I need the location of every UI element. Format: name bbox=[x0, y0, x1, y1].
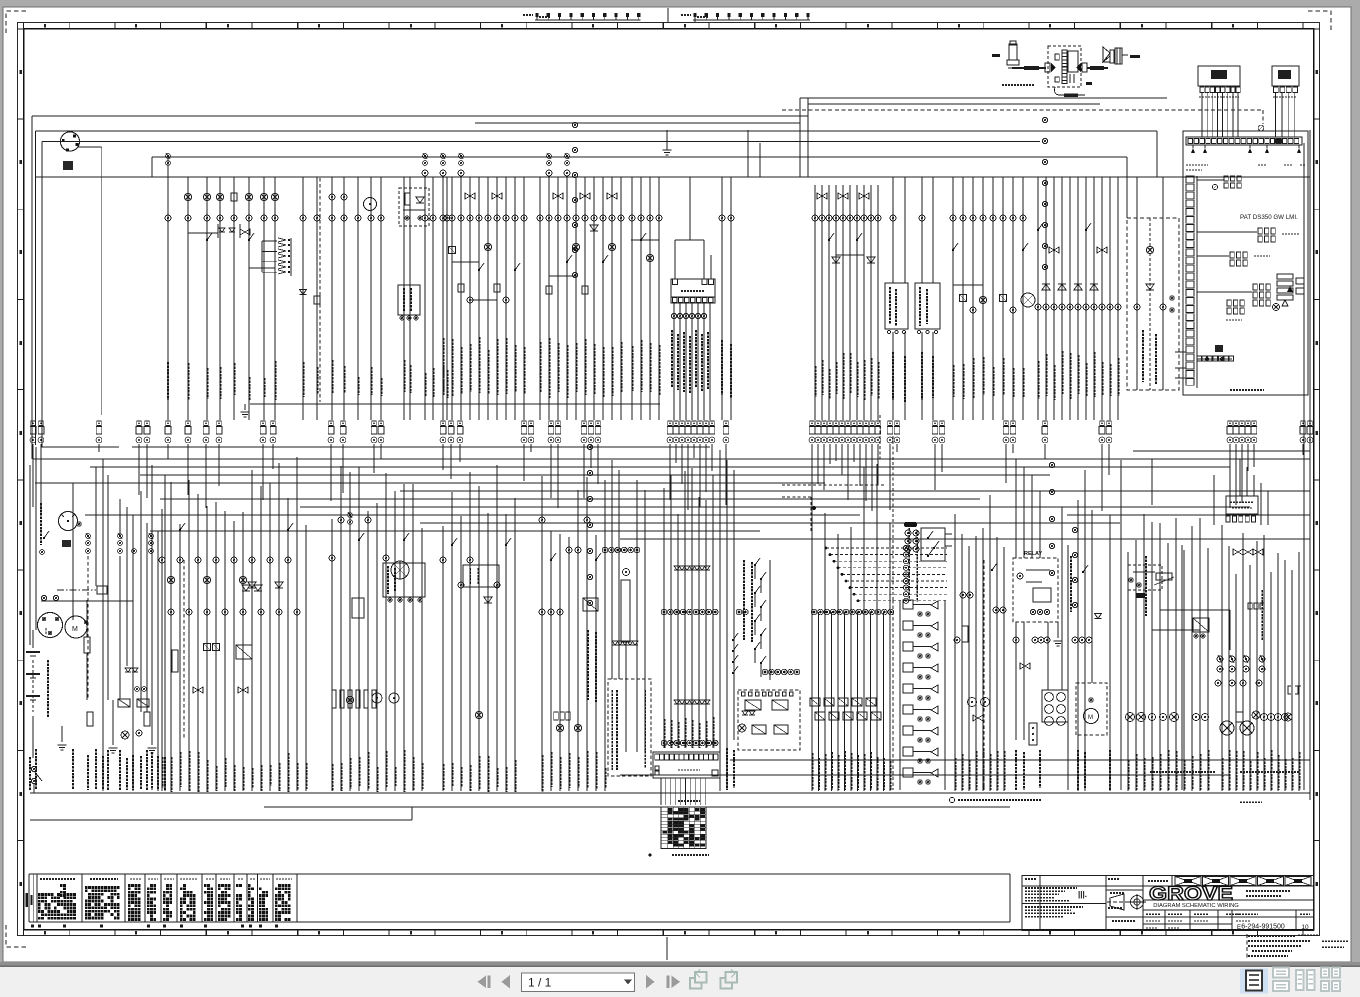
L13 vert label bbox=[1070, 556, 1072, 612]
relay K5 box bbox=[885, 283, 908, 329]
terminal strip T0 (x33) bbox=[31, 421, 35, 425]
dashed corner mark top-right bbox=[1308, 11, 1331, 33]
upper bundle U7 bbox=[631, 177, 633, 420]
legend table right box bbox=[297, 873, 1010, 875]
speaker symbol bbox=[1103, 56, 1110, 62]
triangle row TA (y568) bbox=[674, 566, 680, 570]
lamp above relay pair bbox=[738, 724, 746, 732]
heavy vertical x1068 bbox=[1067, 545, 1069, 790]
transition bus F (y491) bbox=[400, 490, 1310, 492]
L11 symbols bbox=[960, 592, 966, 598]
horn wire right hatched bbox=[1087, 67, 1108, 69]
lower bus y807 bbox=[264, 806, 1010, 808]
U3 dashed vertical x320 bbox=[319, 178, 321, 402]
ground below RELAY bbox=[1054, 640, 1063, 642]
horn H1 cylinder bbox=[1009, 44, 1017, 60]
bus selector wires down bbox=[673, 303, 675, 420]
lamp row right bbox=[1252, 711, 1260, 719]
lamp grid 3x2 bbox=[1045, 693, 1054, 702]
big circle CB1 bbox=[364, 198, 377, 211]
fuse pair row bbox=[1217, 656, 1223, 662]
ground G-3 bbox=[148, 747, 157, 749]
pilot block PL1 bbox=[398, 285, 420, 315]
transition bus L (y539) bbox=[620, 538, 1310, 540]
battery dashed link bbox=[32, 660, 34, 712]
dashed option bus (y110) bbox=[782, 109, 1263, 111]
junction pair y598 bbox=[41, 595, 46, 600]
svg-text:1 / 1: 1 / 1 bbox=[528, 976, 552, 990]
terminal strip T10 (x343) bbox=[341, 421, 345, 425]
L9 upper stubs bbox=[811, 456, 813, 612]
fan-out dashed wires bbox=[826, 547, 947, 549]
legend under-table dots bbox=[31, 925, 34, 928]
right end dash bbox=[1130, 55, 1140, 58]
U3 diode bbox=[300, 290, 307, 295]
lower bus y820 bbox=[30, 819, 412, 821]
bus left drop x152 bbox=[151, 157, 153, 177]
L15 wires bbox=[1221, 525, 1223, 791]
PAT grid D bbox=[1253, 284, 1257, 290]
terminal strip T12 (x381) bbox=[379, 421, 383, 425]
terminal strip T14 (x460) bbox=[458, 421, 462, 425]
flasher cluster bbox=[1128, 565, 1162, 590]
svg-text:6-294-991500: 6-294-991500 bbox=[1241, 924, 1285, 931]
legend table grid bbox=[29, 873, 1010, 875]
L7 labels bbox=[663, 719, 665, 748]
lower bundle L2 (dense left) bbox=[161, 509, 163, 791]
relay sq row y702 bbox=[118, 699, 130, 707]
junction dot row E (y743) bbox=[661, 740, 667, 746]
resistor ladder R-L6 bbox=[623, 569, 630, 576]
transition bus I (y515) bbox=[85, 514, 860, 516]
title small text rows A bbox=[1025, 878, 1037, 880]
dashed bus into PAT bbox=[1262, 110, 1264, 124]
PAT grid B bbox=[1258, 228, 1262, 234]
transfer box TR1 bbox=[383, 563, 425, 597]
legend table text blobs bbox=[38, 893, 41, 896]
two-page icon bbox=[1296, 970, 1304, 990]
bus +15 (y130) bbox=[36, 130, 1158, 132]
switch cascade S-L7b bbox=[733, 633, 738, 640]
relay bank labels bbox=[908, 528, 910, 600]
PAT left stubs bbox=[1175, 351, 1186, 353]
frame zone labels bbox=[20, 70, 23, 74]
terminal strip T28 (x1303) bbox=[1301, 421, 1305, 425]
lower right label rows bbox=[1150, 771, 1215, 773]
headlight dashed box bbox=[1076, 683, 1107, 735]
top wires drop right of center bbox=[799, 98, 801, 177]
L14 labels bbox=[1127, 760, 1129, 790]
disconnect switch S2 bbox=[31, 766, 36, 771]
horn connector pair left bbox=[1045, 63, 1050, 72]
transition steps right bbox=[1133, 450, 1310, 452]
fuse row F-row bbox=[332, 690, 336, 708]
L13 dot row y640 bbox=[1072, 637, 1078, 643]
relay ladder upper block bbox=[904, 522, 917, 527]
gauge M1 label plate bbox=[63, 161, 73, 170]
below-frame note lines bbox=[1248, 935, 1296, 937]
PAT slash circle bbox=[1212, 184, 1217, 189]
junction dot row C (y612) bbox=[811, 609, 817, 615]
upper bundle U6 bbox=[539, 177, 541, 420]
lower bundle L11 wires bbox=[954, 514, 956, 791]
big lamps right bbox=[1220, 721, 1234, 735]
junction dot column x590 bbox=[587, 444, 592, 449]
matrix label bbox=[678, 800, 700, 802]
triangle row TB (y702) bbox=[674, 700, 680, 704]
bus right drop x1304 bbox=[1303, 143, 1305, 790]
transition bus E (y483) bbox=[35, 482, 825, 484]
nav prev-page button bbox=[502, 975, 511, 989]
wire M1 exit right bbox=[78, 146, 102, 148]
gauge M3 (volt) bbox=[59, 512, 78, 531]
transition bus B (y459) bbox=[33, 458, 1310, 460]
terminal strip T2 (x139) bbox=[137, 421, 141, 425]
bus y116 left span bbox=[32, 115, 808, 117]
upper bundle U4 bbox=[357, 177, 359, 420]
junction dot row A (y612) bbox=[661, 609, 667, 615]
dashed enclosure DL6 bbox=[608, 679, 651, 776]
L13 wires bbox=[1077, 500, 1079, 791]
circle gauge U11 bbox=[1021, 293, 1035, 307]
gauge M3 plate bbox=[62, 540, 71, 547]
bumper connector matrix bbox=[661, 807, 706, 849]
PAT grid F bbox=[1227, 300, 1231, 306]
legend margin marks bbox=[26, 893, 29, 907]
L11 labels bbox=[954, 758, 956, 790]
svg-text:PAT DS350 GW LMI.: PAT DS350 GW LMI. bbox=[1240, 214, 1298, 221]
wires below K5/K6 bbox=[892, 332, 894, 420]
nav last-page button bbox=[667, 976, 670, 989]
lower bundle L5 bbox=[541, 476, 543, 791]
terminal strip T20 (x726) bbox=[724, 421, 728, 425]
PAT terminal ladder bbox=[1186, 176, 1194, 183]
relay pair dashed box bbox=[738, 690, 800, 750]
GM selector wires down bbox=[660, 778, 662, 805]
terminal strip T26 (x1102) bbox=[1100, 421, 1104, 425]
terminal strip T5 (x206) bbox=[204, 421, 208, 425]
gauge M1 (cluster) bbox=[60, 132, 79, 151]
horn wire left hatched bbox=[1012, 67, 1046, 69]
terminal strip T7 (x263) bbox=[261, 421, 265, 425]
dashed vertical x88 bbox=[87, 556, 89, 700]
ground G-U2 bbox=[241, 411, 250, 413]
L11 dashed vertical bbox=[983, 560, 985, 790]
lower bus y760 bbox=[730, 759, 1310, 761]
transition bus A (y447) bbox=[41, 446, 119, 448]
bus selector box bbox=[671, 279, 715, 297]
relay K1 dashed box bbox=[399, 188, 429, 226]
starter M2 bbox=[65, 616, 87, 638]
dot row y640 right bbox=[1013, 637, 1019, 643]
terminal strip T9 (x331) bbox=[329, 421, 333, 425]
terminal strip T19 (x670) bbox=[668, 421, 672, 425]
upper bundle U5 bbox=[442, 177, 444, 420]
relay near flasher bbox=[1193, 618, 1209, 632]
terminal strip T3 (x168) bbox=[166, 421, 170, 425]
L15 small cluster bbox=[1248, 603, 1252, 609]
bus selector wires up bbox=[674, 240, 676, 279]
lower bundle L3 bbox=[331, 519, 333, 791]
fuse box row A (y702) bbox=[810, 698, 820, 706]
terminal stubs down bbox=[32, 444, 34, 507]
dashed corner mark bottom-left bbox=[6, 925, 29, 947]
gauge M3 label bbox=[40, 503, 42, 545]
terminal strip T8 (x273) bbox=[271, 421, 275, 425]
bus corner x42 bbox=[41, 142, 43, 448]
connector CN2 block bbox=[1272, 66, 1299, 86]
L13 switch bbox=[1083, 565, 1088, 572]
option dashed box U13 bbox=[1127, 218, 1179, 390]
terminal strip T13 (x443) bbox=[441, 421, 445, 425]
toolbar background bbox=[0, 967, 1360, 997]
svg-text:M: M bbox=[1088, 715, 1093, 721]
center fold mark bottom bbox=[666, 937, 668, 960]
small connector 3pin bbox=[1029, 723, 1037, 745]
PAT grid C bbox=[1230, 252, 1234, 258]
U2 diode cluster bbox=[219, 228, 225, 232]
wire stub from pin row P2 bbox=[694, 20, 696, 22]
contactor pair bbox=[1020, 663, 1025, 669]
terminal strip T16 (x551) bbox=[549, 421, 553, 425]
terminal strip T25 (x1045) bbox=[1043, 421, 1047, 425]
junction dot column x1045 bbox=[1042, 117, 1047, 122]
terminal strip T22 (x890) bbox=[888, 421, 892, 425]
dot row y683 right bbox=[1215, 680, 1221, 686]
terminal strip T11 (x374) bbox=[372, 421, 376, 425]
relay pair cells bbox=[745, 700, 761, 710]
RELAY box internals bbox=[1017, 573, 1023, 579]
note text below baseline bbox=[949, 797, 954, 802]
bus selector pin squares bbox=[671, 297, 715, 303]
upper bundle U12 bbox=[1037, 177, 1039, 420]
ground sym above bus selector bbox=[663, 149, 672, 151]
svg-text:GROVE: GROVE bbox=[1149, 884, 1233, 905]
L5 relay hatched bbox=[583, 598, 598, 611]
small box L3b bbox=[352, 598, 364, 618]
VLF connector box bbox=[1226, 496, 1258, 514]
PAT grid top bbox=[1224, 176, 1228, 181]
battery BT1 bbox=[26, 651, 40, 653]
dashed vertical x893 bbox=[892, 600, 894, 790]
toolbar separator bbox=[0, 962, 1360, 967]
frame top ruler ticks bbox=[23, 22, 25, 29]
svg-text:|||.: |||. bbox=[1078, 890, 1087, 899]
title grid texts bbox=[1146, 913, 1160, 915]
lamp left bbox=[121, 731, 129, 739]
dash-dot link y590 bbox=[57, 589, 96, 591]
bus 58 (y157) bbox=[152, 156, 1127, 158]
terminal strip T15 (x524) bbox=[522, 421, 526, 425]
prev-view icon bbox=[690, 978, 702, 989]
junction dot column x1075 bbox=[1072, 527, 1077, 532]
L4 box bbox=[463, 565, 499, 587]
GM selector box bbox=[653, 752, 720, 778]
fan-out terminal circles bbox=[903, 545, 908, 550]
fuse row y543 bbox=[86, 534, 91, 539]
L15 contactor row bbox=[1233, 549, 1238, 555]
junction pairs y689 bbox=[135, 687, 140, 692]
nav next-page button bbox=[646, 975, 655, 989]
L12 wires bbox=[1015, 459, 1017, 558]
L9 labels bbox=[811, 753, 813, 790]
upper bundle U11 bbox=[952, 177, 954, 420]
frame bottom ruler ticks bbox=[23, 930, 25, 936]
L8 vert label bbox=[743, 560, 745, 640]
U2 standalone wire x168 bbox=[167, 155, 169, 420]
title block grid bbox=[1022, 876, 1314, 931]
lower bus y793 bbox=[30, 792, 1310, 794]
L2 diode pair bbox=[242, 585, 250, 591]
PAT strip pin texts bbox=[1186, 164, 1208, 166]
terminal strip T17 (x584) bbox=[582, 421, 586, 425]
transition bus G (y499) bbox=[160, 498, 980, 500]
upper label stack center bbox=[671, 330, 673, 388]
option label bbox=[1240, 801, 1262, 803]
lower bundle L7 wires bbox=[663, 488, 665, 748]
vertical pin ladder (column X2) bbox=[278, 238, 286, 242]
svg-text:10: 10 bbox=[1301, 924, 1309, 931]
double-C symbols bbox=[1288, 686, 1291, 694]
horn dashed junction box bbox=[1048, 46, 1081, 87]
svg-text:DIAGRAM SCHEMATIC WIRING: DIAGRAM SCHEMATIC WIRING bbox=[1153, 903, 1239, 909]
wires above K5/K6 bbox=[892, 177, 894, 283]
terminal strip T21 (x812) bbox=[810, 421, 814, 425]
terminal strip T27 (x1230) bbox=[1228, 421, 1232, 425]
L14 mesh corners bbox=[1160, 609, 1230, 611]
switch cascade S-L7 bbox=[755, 558, 760, 565]
junction dot column x1052 bbox=[1049, 462, 1054, 467]
frame left ruler ticks bbox=[18, 28, 24, 30]
PAT cluster E bbox=[1277, 274, 1293, 279]
PAT DS350 enclosure bbox=[1183, 131, 1308, 395]
PAT strip arrows bbox=[1191, 148, 1195, 153]
bus y141 through M1 bbox=[42, 141, 1040, 143]
ground G-bat bbox=[58, 744, 67, 746]
dashed riser x880 bbox=[879, 415, 881, 460]
PAT wires from CN1 bbox=[1201, 93, 1203, 137]
rect lamp symbol bbox=[1236, 712, 1243, 722]
lower bus y775 bbox=[620, 774, 1230, 776]
vertical junction dots x575 bbox=[572, 122, 577, 127]
company address block bbox=[1025, 887, 1077, 889]
left labels bbox=[29, 757, 31, 790]
resistor R-b bbox=[87, 712, 93, 726]
horn label text bbox=[1002, 84, 1034, 86]
lower bundle L4 bbox=[442, 526, 444, 791]
vertical bus bundle L9 bbox=[811, 612, 813, 791]
legend small note col2 bbox=[60, 884, 63, 887]
L5 vert labels mid bbox=[587, 630, 589, 700]
dashed riser x893b bbox=[892, 436, 894, 600]
junction dot row D (y672) bbox=[762, 669, 768, 675]
terminal strip T1 (x99) bbox=[97, 421, 101, 425]
next-view icon bbox=[721, 978, 733, 989]
legend header marks bbox=[40, 878, 76, 880]
bus selector pin circles bbox=[671, 313, 676, 318]
transition bus C (y467) bbox=[90, 466, 1230, 468]
fuse box row B (y716) bbox=[815, 712, 825, 720]
logo side text bbox=[1246, 890, 1290, 892]
switch S1 bbox=[44, 531, 49, 538]
horn drop curve bbox=[1055, 87, 1085, 95]
upper bundle U3 bbox=[302, 177, 304, 420]
L6 wires bbox=[611, 460, 613, 679]
junction dot row B (y612) bbox=[736, 609, 742, 615]
scale text bbox=[1110, 892, 1125, 894]
projection symbol bbox=[1110, 894, 1124, 910]
terminal strip T18 (x598) bbox=[596, 421, 600, 425]
horn ladder strip bbox=[1062, 50, 1067, 53]
upper band bottom line y404 bbox=[250, 403, 660, 405]
upper bundle U9 (dense) bbox=[814, 185, 816, 420]
relay bank column bbox=[903, 600, 913, 609]
second address block bbox=[1025, 906, 1083, 908]
terminal strip T23 (x935) bbox=[933, 421, 937, 425]
left end dash bbox=[992, 54, 1000, 57]
gauge M4 (spoked) bbox=[391, 561, 409, 579]
left wires LW bbox=[35, 447, 37, 630]
alternator G1 bbox=[38, 613, 63, 638]
connector CN1 block bbox=[1198, 66, 1240, 86]
bus corner x35 bbox=[35, 131, 37, 445]
gauge pair L3c bbox=[372, 693, 382, 703]
headlight motor bbox=[1084, 709, 1099, 724]
single-page icon (active) bbox=[1240, 969, 1268, 994]
PAT wires from CN2 bbox=[1275, 93, 1277, 137]
relay K6 box bbox=[915, 283, 940, 329]
ground G-2 bbox=[109, 747, 118, 749]
dashed corner mark top-left bbox=[6, 11, 29, 33]
transition bus H (y507) bbox=[300, 506, 1250, 508]
connector pin row P1 (top center-left) bbox=[535, 13, 538, 17]
RELAY dashed box bbox=[1013, 558, 1058, 622]
terminal strip T6 (x219) bbox=[217, 421, 221, 425]
transition bus K (y531) bbox=[150, 530, 760, 532]
upper bundle U2 wires/lamps bbox=[187, 177, 189, 420]
nav first-page button bbox=[478, 976, 487, 989]
bus segment (y123) bbox=[475, 122, 800, 124]
horn connector pair right bbox=[1076, 63, 1081, 72]
L6 triangle row bbox=[612, 641, 618, 645]
page number combo box bbox=[522, 973, 635, 992]
PAT top terminal strip bbox=[1186, 137, 1302, 145]
L2 resistor R1 bbox=[172, 650, 178, 672]
sparse wires U8b bbox=[721, 177, 723, 420]
bus right drop x1310 bbox=[1309, 130, 1311, 800]
frame right ruler band bbox=[1314, 28, 1320, 30]
resistor R-a bbox=[84, 637, 90, 653]
PAT FF block bbox=[1215, 345, 1223, 352]
revision X boxes bbox=[1175, 877, 1201, 886]
L2 relay box bbox=[236, 645, 252, 659]
svg-text:M: M bbox=[72, 626, 78, 633]
U13 internals bbox=[1136, 218, 1138, 390]
diode pair left bbox=[125, 668, 131, 672]
junction dot row F (y550) bbox=[602, 547, 608, 553]
transition bus D (y475) bbox=[140, 474, 1050, 476]
transition bus J (y523) bbox=[420, 522, 1120, 524]
jog lines upper bbox=[188, 232, 218, 234]
relay K1 internals bbox=[405, 193, 410, 205]
two-page-continuous icon bbox=[1321, 968, 1329, 978]
svg-text:E: E bbox=[1237, 925, 1241, 931]
L2 dashed wire bbox=[183, 560, 185, 740]
continuous icon bbox=[1273, 968, 1289, 978]
PAT bottom text bbox=[1230, 389, 1264, 391]
L14 wires bbox=[1127, 552, 1129, 791]
terminal strip T4 (x188) bbox=[186, 421, 190, 425]
